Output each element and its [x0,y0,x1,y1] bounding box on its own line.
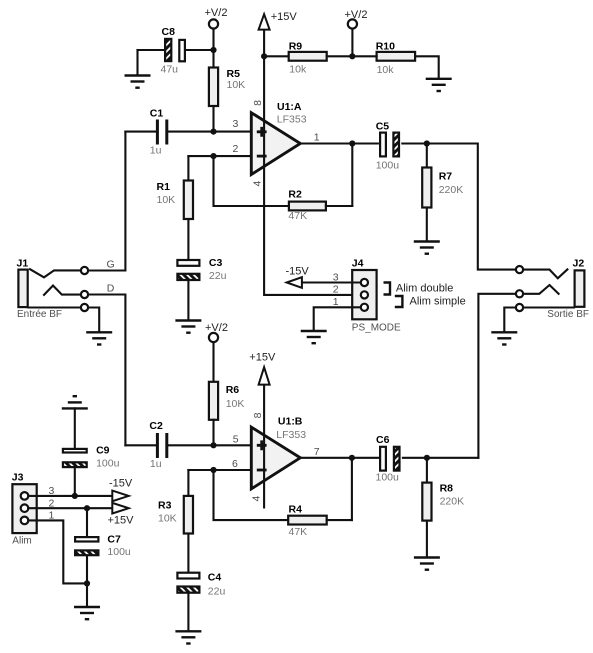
svg-text:LF353: LF353 [276,429,306,441]
wire feedback A riser to output [351,144,353,207]
svg-text:100u: 100u [96,458,120,470]
capacitor C5 [376,120,427,171]
svg-text:R1: R1 [157,181,171,193]
svg-text:1u: 1u [150,145,162,157]
node pin6 junction [210,467,216,473]
svg-text:C6: C6 [376,434,390,446]
svg-text:10K: 10K [227,79,246,91]
svg-text:10K: 10K [158,513,177,525]
svg-text:+15V: +15V [271,11,298,23]
svg-text:C9: C9 [96,445,110,457]
jumper bracket Alim simple [395,295,466,307]
wire feedback A: pin2 junction down and right to R2 [214,156,289,206]
wire C5 junction to right bus, down to J2 tip [427,144,516,270]
connector J3 (Alim) [12,472,37,547]
svg-text:22u: 22u [209,270,227,282]
svg-text:Sortie BF: Sortie BF [547,309,589,320]
svg-text:47u: 47u [161,64,179,76]
ground inverted (above C9) [62,396,88,408]
node C5/R7 junction [424,140,430,146]
svg-text:220K: 220K [440,495,465,507]
node pin3 junction (R5/C1) [210,129,216,135]
jumper bracket Alim double [384,283,454,295]
capacitor C9 [63,408,120,496]
svg-text:-15V: -15V [109,478,133,490]
svg-text:4: 4 [251,181,263,187]
svg-text:G: G [107,259,115,271]
node C9/pin3 junction [72,493,78,499]
svg-text:R4: R4 [289,503,303,515]
node pin2 junction [210,153,216,159]
wire +V/2 mid stem [351,29,353,57]
wire J3 pin3 row [28,495,112,497]
capacitor C3 [177,257,226,320]
svg-text:100u: 100u [376,159,400,171]
svg-text:R6: R6 [226,384,240,396]
op-amp U1:B [251,416,306,489]
svg-text:PS_MODE: PS_MODE [352,323,401,334]
svg-text:R3: R3 [158,500,172,512]
svg-text:+V/2: +V/2 [205,7,228,19]
capacitor C2 [125,420,251,470]
ground (R10) [426,79,452,91]
resistor R5 [209,50,245,132]
wire pin6 row (R3 to U1:B -) [188,469,251,471]
svg-text:C2: C2 [149,420,163,432]
svg-text:Entrée BF: Entrée BF [17,309,62,320]
svg-text:U1:B: U1:B [278,416,303,428]
svg-text:R7: R7 [439,171,453,183]
svg-text:+15V: +15V [108,515,135,527]
wire junction to ground [86,583,88,606]
svg-text:4: 4 [251,496,263,502]
svg-text:J3: J3 [12,472,24,484]
node output B junction [349,455,355,461]
svg-text:47K: 47K [289,526,308,538]
svg-text:C3: C3 [209,257,223,269]
node C6/R8 junction [424,455,430,461]
wire G to C1 (left riser up) [88,132,125,271]
svg-text:1: 1 [314,132,320,144]
svg-text:3: 3 [233,118,239,130]
svg-text:+V/2: +V/2 [205,322,228,334]
node output A junction [349,140,355,146]
wire J4 pin3 row [302,281,361,283]
connector J2 (Sortie BF jack) [547,258,589,321]
svg-text:R8: R8 [440,483,454,495]
svg-text:LF353: LF353 [277,114,307,126]
wire output row A [300,142,378,144]
svg-text:U1:A: U1:A [277,101,302,113]
resistor R8 [422,458,464,557]
svg-text:J4: J4 [352,258,364,270]
svg-text:R2: R2 [288,188,302,200]
wire feedback B: pin6 junction down and right to R4 [214,470,289,520]
J1 tip contact (G) [30,267,88,278]
wire supply column A (through U1:A, down to J4 pin2) [264,29,361,295]
ground (C3) [175,321,201,333]
svg-text:C7: C7 [107,534,121,546]
svg-text:C8: C8 [162,26,176,38]
svg-text:Alim double: Alim double [396,283,453,295]
power flag -15V (J4 pin3) [286,265,310,287]
resistor R6 [209,342,244,445]
wire C6 junction to right bus [427,457,479,459]
capacitor C4 [177,572,225,631]
node +V/2 terminal (channel A top) [205,7,228,29]
node C7/J3 pin1 junction [84,580,90,586]
node R9/R10 junction [349,53,355,59]
ground (C7) [74,607,100,619]
resistor R10 [352,41,438,78]
ground (J4 pin1) [301,331,327,343]
connector J4 PS_MODE [352,258,401,334]
svg-text:C4: C4 [208,572,222,584]
svg-text:1: 1 [333,296,339,308]
ground (C8) [125,76,151,88]
node C7/pin2 junction [84,505,90,511]
svg-text:5: 5 [233,434,239,446]
svg-text:-15V: -15V [286,265,310,277]
svg-text:10k: 10k [377,64,395,76]
J2 ring contact [516,285,559,297]
J1 sleeve contact [28,304,99,332]
ground (C4) [175,631,201,643]
node R9 left junction [261,53,267,59]
svg-text:+15V: +15V [249,351,276,363]
resistor R1 [157,156,194,259]
resistor R2 [288,188,352,222]
capacitor C1 [125,107,251,156]
svg-text:47K: 47K [288,210,307,222]
svg-text:1u: 1u [150,458,162,470]
wire output row B [300,457,378,459]
J2 tip contact [516,266,568,278]
capacitor C8 [138,26,214,76]
svg-text:D: D [107,283,115,295]
svg-text:8: 8 [252,412,264,418]
resistor R3 [158,470,193,572]
connector J1 (Entree BF jack) [17,257,63,320]
capacitor C6 [376,434,427,484]
svg-text:10K: 10K [157,194,176,206]
node A: C8/R5/+V2 junction [210,47,216,53]
svg-text:8: 8 [252,100,264,106]
svg-text:J2: J2 [573,258,585,270]
power flag +15V (J3 pin2) [108,503,135,527]
svg-text:100u: 100u [376,472,400,484]
wire J3 pin1 down to bottom junction [28,520,87,583]
svg-text:10K: 10K [226,398,245,410]
svg-text:J1: J1 [17,257,29,269]
wire D to C2 (left riser down) [88,295,125,446]
resistor R4 [288,503,352,538]
wire pin2 row (R1 to U1:A -) [188,155,251,157]
node +V/2 terminal (channel B) [205,322,228,342]
wire J2 ring to right bus riser [478,294,516,458]
svg-text:C5: C5 [376,120,390,132]
power flag +15V (channel A) [259,11,298,30]
ground (R7) [414,242,440,254]
svg-text:7: 7 [314,446,320,458]
op-amp U1:A [251,101,306,175]
svg-text:R9: R9 [289,40,303,52]
ground (J1 sleeve) [86,332,112,344]
ground (J2 sleeve) [491,332,517,344]
svg-text:C1: C1 [150,107,164,119]
capacitor C7 [75,508,131,583]
wire C8 left plate to ground [136,50,138,75]
J1 ring contact (D) [44,286,88,299]
svg-text:+V/2: +V/2 [345,9,368,21]
power flag +15V (channel B) [249,351,276,384]
resistor R7 [422,144,463,241]
svg-text:22u: 22u [208,586,226,598]
svg-text:2: 2 [333,284,339,296]
power flag -15V (J3 pin3) [109,478,133,502]
svg-text:100u: 100u [107,546,131,558]
svg-text:Alim: Alim [12,536,31,547]
wire J3 pin2 row [28,507,112,509]
svg-text:2: 2 [233,143,239,155]
ground (R8) [414,558,440,570]
wire J4 pin1 to ground [314,307,361,330]
svg-text:R10: R10 [376,41,395,53]
resistor R9 [264,40,352,75]
svg-text:6: 6 [232,458,238,470]
J2 sleeve contact [504,304,574,332]
wire feedback B riser to output [351,458,353,520]
svg-text:Alim simple: Alim simple [410,295,466,307]
wire supply column B (through U1:B, stub below) [263,384,265,507]
node pin5 junction (R6/C2) [210,442,216,448]
node +V/2 mid terminal [345,9,368,28]
svg-text:10k: 10k [289,63,307,75]
wire +V/2 terminal to C8/R5 junction [212,29,214,50]
svg-text:220K: 220K [439,184,464,196]
